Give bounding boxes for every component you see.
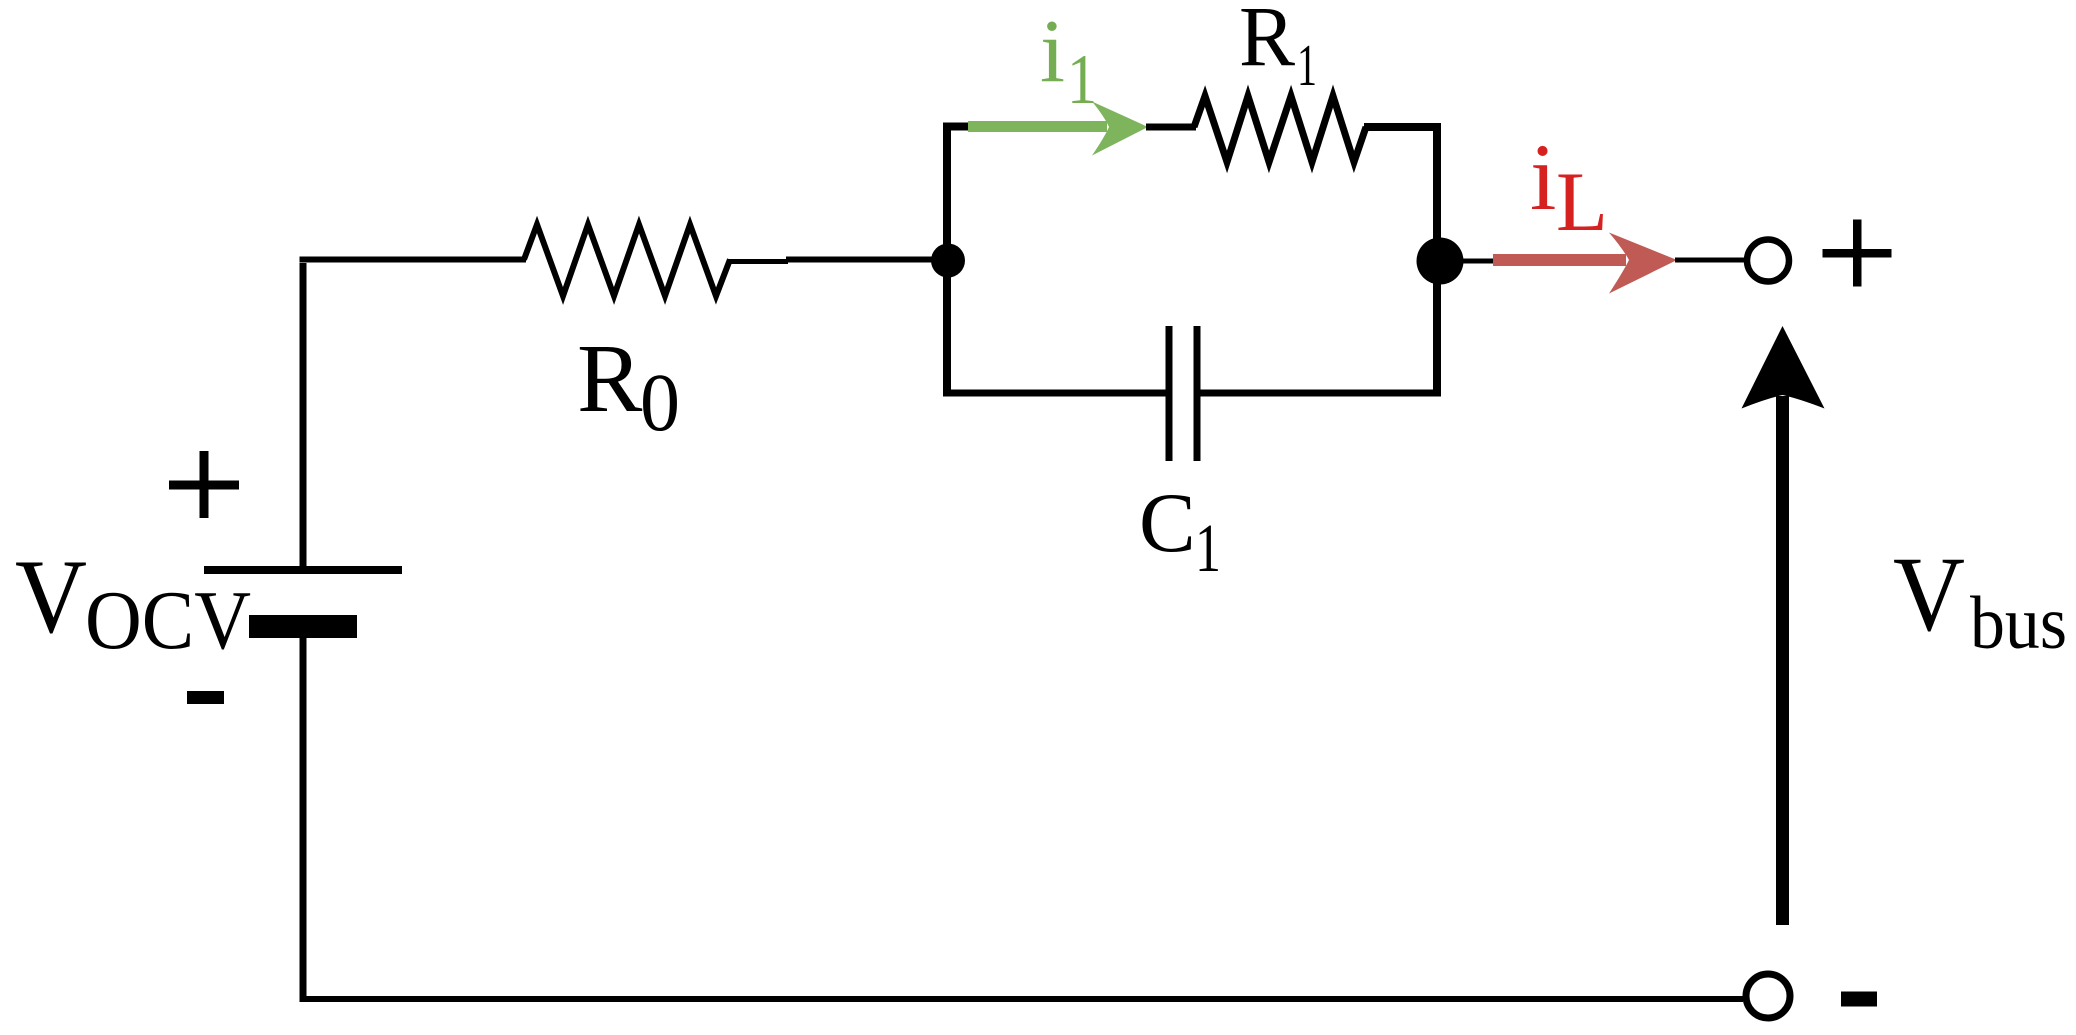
- svg-text:1: 1: [1195, 510, 1221, 586]
- wire battery negative lead (left vertical bottom): [300, 636, 307, 1001]
- wire battery positive lead (left vertical top): [300, 263, 307, 566]
- battery V_OCV top plate (long thin): [204, 566, 402, 574]
- wire green arrow tip to R1: [1146, 124, 1196, 131]
- svg-text:R: R: [577, 325, 643, 433]
- wire bottom-right of RC loop: [1200, 390, 1441, 397]
- svg-text:V: V: [15, 538, 87, 655]
- wire right branch vertical of RC loop: [1433, 123, 1441, 397]
- label - (output negative): [1841, 992, 1877, 1007]
- wire node B to red arrow: [1460, 259, 1500, 264]
- terminal negative (open circle): [1746, 974, 1790, 1018]
- wire bottom-left of RC loop: [944, 390, 1167, 397]
- wire bottom rail: [300, 996, 1744, 1002]
- current arrow i1 (green): [968, 121, 1107, 132]
- node B (right junction dot): [1417, 238, 1464, 285]
- svg-text:1: 1: [1297, 32, 1317, 98]
- resistor R1: [1194, 96, 1366, 162]
- wire red arrow tip to positive terminal: [1675, 258, 1747, 263]
- svg-text:V: V: [1893, 536, 1965, 654]
- label + (output positive): [1823, 249, 1892, 258]
- svg-text:C: C: [1139, 476, 1196, 570]
- capacitor C1 right plate: [1194, 326, 1201, 461]
- svg-text:1: 1: [1067, 41, 1097, 119]
- label - (battery negative): [187, 691, 224, 704]
- current arrow iL (red): [1493, 254, 1626, 266]
- svg-text:bus: bus: [1970, 582, 2067, 665]
- voltage arrow V_bus: [1776, 396, 1789, 925]
- svg-text:i: i: [1530, 124, 1556, 230]
- capacitor C1 left plate: [1166, 326, 1173, 461]
- svg-text:R: R: [1239, 0, 1296, 84]
- label + (battery positive): [169, 481, 239, 490]
- svg-text:0: 0: [640, 356, 680, 448]
- battery V_OCV bottom plate (short thick): [249, 615, 357, 638]
- svg-text:i: i: [1040, 2, 1065, 101]
- wire left branch vertical of RC loop: [943, 123, 951, 397]
- node A (left junction dot): [931, 244, 965, 278]
- wire R1 to top-right corner: [1364, 123, 1441, 131]
- terminal positive (open circle): [1747, 240, 1789, 282]
- wire main rail from battery corner to R0: [300, 257, 527, 263]
- wire R0 to node A (with tiny seam offset): [728, 259, 788, 264]
- wire top-left stub of RC loop: [944, 123, 972, 131]
- resistor R0: [524, 225, 730, 297]
- svg-text:OCV: OCV: [85, 574, 251, 667]
- svg-text:L: L: [1556, 155, 1608, 249]
